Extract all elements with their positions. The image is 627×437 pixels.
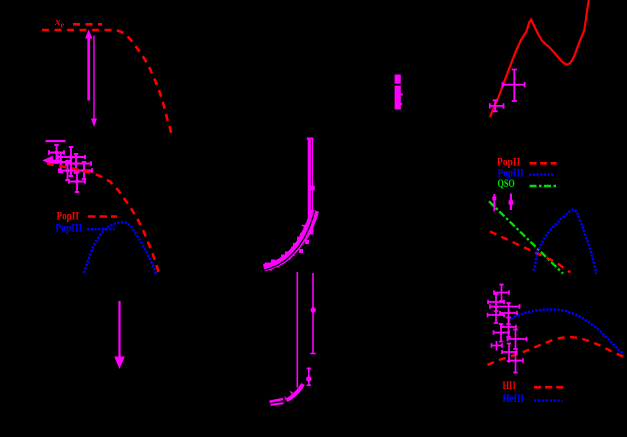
panel D: legend sample PopIII bbox=[529, 173, 554, 175]
panel C: red solid curve bbox=[490, 0, 589, 117]
panel B: swoosh scattered points bbox=[264, 213, 317, 271]
svg-text:PopIII: PopIII bbox=[56, 223, 83, 235]
svg-text:HII: HII bbox=[503, 380, 517, 392]
panel B: bottom cluster arc band bbox=[287, 384, 304, 401]
panel A: legend sample PopII bbox=[88, 215, 117, 218]
panel E: HII red dashed curve bbox=[488, 337, 627, 365]
panel E: data cross 9 small bbox=[492, 341, 503, 351]
panel B: bottom cluster streak 1 bbox=[270, 399, 284, 402]
panel B: black model curve over band bbox=[262, 211, 315, 271]
panel A: PopII red dashed SFR curve bbox=[47, 164, 159, 275]
panel A: data point cross 6 bbox=[75, 162, 92, 179]
panel E: data cross 4 bbox=[488, 307, 505, 323]
svg-text:PopII: PopII bbox=[57, 211, 80, 223]
panel A: PopIII blue dotted SFR curve bbox=[84, 222, 156, 274]
panel E: data cross 6 bbox=[501, 318, 516, 338]
panel A: data cluster top horizontal bar bbox=[46, 140, 66, 142]
panel B: square point on tall bar bbox=[310, 186, 315, 191]
svg-text:xe: xe bbox=[54, 16, 65, 30]
panel E: data cross 3 wide bbox=[490, 304, 520, 308]
panel D: QSO green dash-dot line bbox=[489, 201, 563, 273]
panel D: legend sample QSO bbox=[530, 185, 557, 187]
panel E: legend sample HeIII bbox=[534, 399, 563, 401]
panel B: tall thin error bar bbox=[311, 138, 313, 230]
panel A: data point cross 5 bbox=[59, 161, 76, 180]
panel E: data cross 2 bbox=[488, 294, 504, 311]
panel B: dense data band (swoosh) bbox=[264, 212, 315, 268]
panel C: data cross 2 bbox=[490, 100, 504, 111]
panel B: long vertical error line right bbox=[312, 273, 314, 354]
panel A: data point cross 7 bbox=[69, 172, 85, 192]
panel E: legend sample HII bbox=[534, 386, 563, 389]
panel B: tall thick error bar bbox=[308, 138, 311, 226]
svg-text:PopII: PopII bbox=[497, 156, 521, 168]
panel D: upper limit point 2 bbox=[510, 194, 512, 211]
panel A: left-pointing upper limit arrow bbox=[45, 157, 63, 164]
panel A: bottom magenta down arrow bbox=[118, 301, 120, 357]
panel B: circle point on right line bbox=[311, 307, 316, 312]
panel A: magenta thin down arrow bbox=[93, 36, 95, 120]
panel E: HeIII blue dotted curve bbox=[508, 309, 625, 354]
panel A: x_e legend dashed sample bbox=[73, 23, 102, 26]
panel A: magenta up arrow bbox=[87, 38, 90, 101]
panel E: data cross 1 bbox=[494, 285, 509, 302]
panel A: data point cross 1 bbox=[49, 145, 64, 163]
panel B: swoosh error tick 2 bbox=[302, 226, 307, 232]
panel E: data cross 8 bbox=[508, 330, 527, 350]
panel A: data point cross 3 bbox=[52, 153, 70, 172]
panel E: data cross 11 bbox=[509, 352, 523, 373]
panel C: data cross 1 bbox=[503, 70, 525, 102]
panel B: right line bottom cap bbox=[310, 353, 315, 355]
panel B: bar side nub 1 bbox=[401, 93, 403, 95]
panel D: PopIII blue dotted bump bbox=[534, 209, 597, 274]
panel A: recombination x_e red dashed curve bbox=[42, 30, 172, 137]
panel E: data cross 10 bbox=[502, 344, 517, 362]
panel E: data cross 5 bbox=[500, 303, 517, 324]
panel D: PopII red dashed line bbox=[490, 232, 571, 273]
panel E: data cross 7 bbox=[494, 324, 510, 342]
panel B: bar side nub 2 bbox=[400, 103, 402, 105]
panel A: legend sample PopIII bbox=[87, 228, 115, 230]
panel B: bottom cluster arrow mark 1 bbox=[284, 396, 288, 401]
panel A: data point cross 2 bbox=[58, 147, 85, 176]
svg-text:QSO: QSO bbox=[498, 178, 515, 190]
panel D: upper limit point 1 bbox=[493, 194, 495, 211]
panel B: long vertical error line left bbox=[296, 272, 298, 388]
panel D: legend sample PopII bbox=[530, 162, 557, 165]
panel A: data point cross 4 bbox=[66, 154, 91, 173]
panel B: bottom cluster arrow mark 2 bbox=[290, 391, 294, 395]
svg-text:HeIII: HeIII bbox=[503, 393, 525, 405]
panel B: bottom cluster streak 2 bbox=[271, 403, 284, 405]
panel B: swoosh error tick 1 bbox=[291, 248, 296, 255]
panel B: thick magenta bar upper segment bbox=[395, 75, 401, 84]
panel B: bottom point with error bar bbox=[306, 376, 311, 381]
panel B: tall error bar top cap bbox=[307, 138, 314, 140]
panel B: thick magenta bar lower segment bbox=[395, 86, 401, 110]
